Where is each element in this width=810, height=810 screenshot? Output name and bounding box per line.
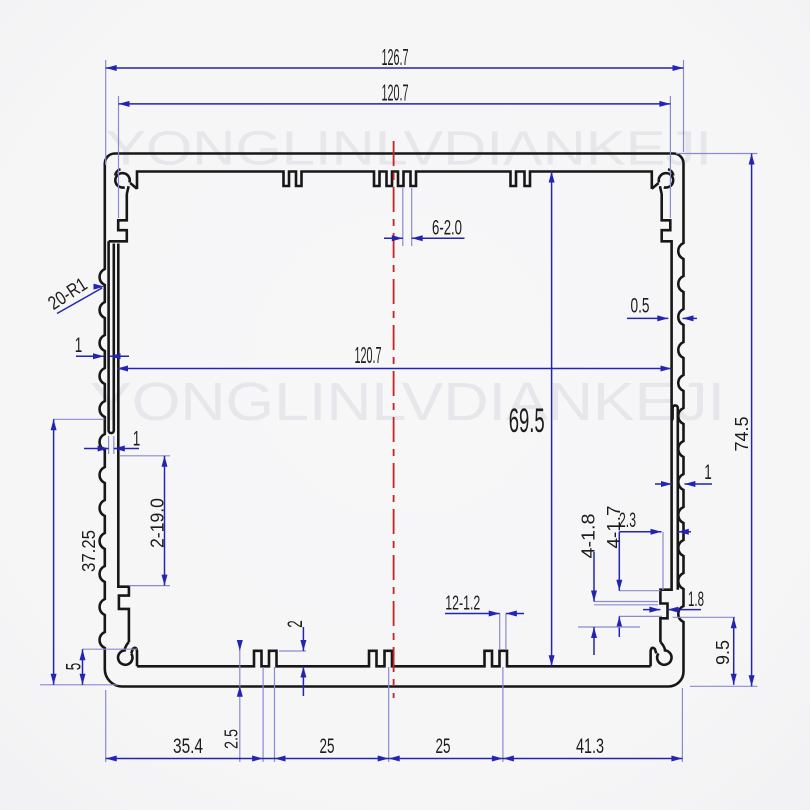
left wall inner surface with T-notches: [109, 194, 129, 642]
svg-text:YONGLINLVDIANKEJI: YONGLINLVDIANKEJI: [106, 123, 712, 176]
dimension 120.7 inner width: [117, 368, 672, 370]
svg-text:37.25: 37.25: [78, 530, 99, 572]
dimension 5: [83, 648, 138, 650]
inner ceiling line with 6-2.0 slot teeth: [137, 172, 652, 190]
dimension 74.5 overall height: [676, 153, 758, 155]
svg-text:9.5: 9.5: [712, 640, 733, 665]
top-right inner corner fillet: [668, 169, 673, 175]
dimension 1 left wall: [76, 355, 104, 357]
bottom-left screw boss keyhole: [118, 650, 132, 664]
red dashed vertical centerline: [393, 141, 395, 698]
svg-text:1.8: 1.8: [688, 588, 704, 611]
svg-text:YONGLINLVDIANKEJI: YONGLINLVDIANKEJI: [90, 372, 725, 432]
svg-text:69.5: 69.5: [509, 402, 545, 440]
svg-text:41.3: 41.3: [576, 735, 604, 758]
dimension 69.5 inner height: [551, 172, 553, 667]
dimension 126.7 overall width: [105, 60, 107, 165]
right wall internal screw slot: [672, 405, 678, 589]
top-right keyhole slot opening: [652, 183, 662, 194]
dimension 2-19.0 wall channel: [120, 455, 170, 457]
dimension 2.5 tooth to base: [239, 645, 241, 762]
dimension 120.7 top width: [118, 96, 120, 218]
svg-text:12-1.2: 12-1.2: [445, 592, 480, 615]
dimension 0.5 scallop depth: [627, 317, 668, 319]
top-left screw boss keyhole: [115, 173, 129, 187]
svg-text:2-19.0: 2-19.0: [147, 498, 168, 548]
bottom-left keyhole slot opening: [124, 642, 137, 666]
svg-text:1: 1: [133, 428, 141, 451]
top-left keyhole slot opening: [127, 183, 137, 194]
dimension 9.5: [673, 616, 735, 618]
svg-text:25: 25: [320, 735, 335, 758]
svg-text:120.7: 120.7: [382, 80, 409, 106]
dimension 37.25 left height: [54, 418, 105, 420]
svg-text:74.5: 74.5: [731, 417, 752, 452]
left wall internal screw slot (2-19.0 channel): [109, 241, 114, 433]
svg-text:2: 2: [284, 620, 307, 628]
outer profile wall of enclosure (scalloped left/right edges): [100, 154, 684, 687]
svg-text:35.4: 35.4: [173, 735, 203, 758]
svg-text:5: 5: [63, 663, 86, 671]
svg-text:25: 25: [436, 735, 451, 758]
dimension 35.4: [106, 758, 263, 760]
bottom chain dimension extension lines: [105, 690, 107, 762]
top-right screw boss keyhole: [659, 173, 673, 187]
svg-text:120.7: 120.7: [355, 342, 382, 368]
dimension 6-2.0 ceiling slots: [402, 188, 404, 246]
dimension 1 slot width: [108, 436, 110, 454]
bottom-right keyhole slot opening: [651, 642, 666, 666]
dimension 4-1.7: [619, 590, 660, 592]
svg-text:2.5: 2.5: [221, 729, 242, 749]
right wall inner surface with T-notches: [660, 194, 671, 642]
dimension 25 first: [275, 758, 389, 760]
bottom-right screw boss keyhole: [657, 650, 671, 664]
dimension 41.3: [503, 758, 683, 760]
svg-text:0.5: 0.5: [631, 295, 650, 318]
svg-text:1: 1: [704, 461, 712, 484]
svg-text:4-1.8: 4-1.8: [578, 514, 599, 559]
label 20-R1 scallop radius with leader arrow: [57, 288, 102, 314]
svg-text:126.7: 126.7: [382, 44, 409, 70]
dimension 1.8 wall notch: [643, 609, 660, 611]
dimension 25 second: [389, 758, 503, 760]
dimension 1 right wall: [655, 483, 672, 485]
top-left inner corner fillet: [115, 169, 120, 175]
dimension 2 floor tooth height: [279, 650, 306, 652]
dimension 2.5 chain segment: [263, 758, 274, 760]
dimension 4-1.8: [594, 601, 658, 603]
svg-text:1: 1: [75, 334, 83, 357]
inner floor line with 12-1.2 slot teeth: [137, 651, 651, 667]
svg-text:4-1.7: 4-1.7: [603, 506, 624, 549]
svg-text:6-2.0: 6-2.0: [432, 217, 462, 240]
dimension 2.3: [662, 532, 664, 590]
dimension 12-1.2 floor slots: [499, 614, 501, 651]
